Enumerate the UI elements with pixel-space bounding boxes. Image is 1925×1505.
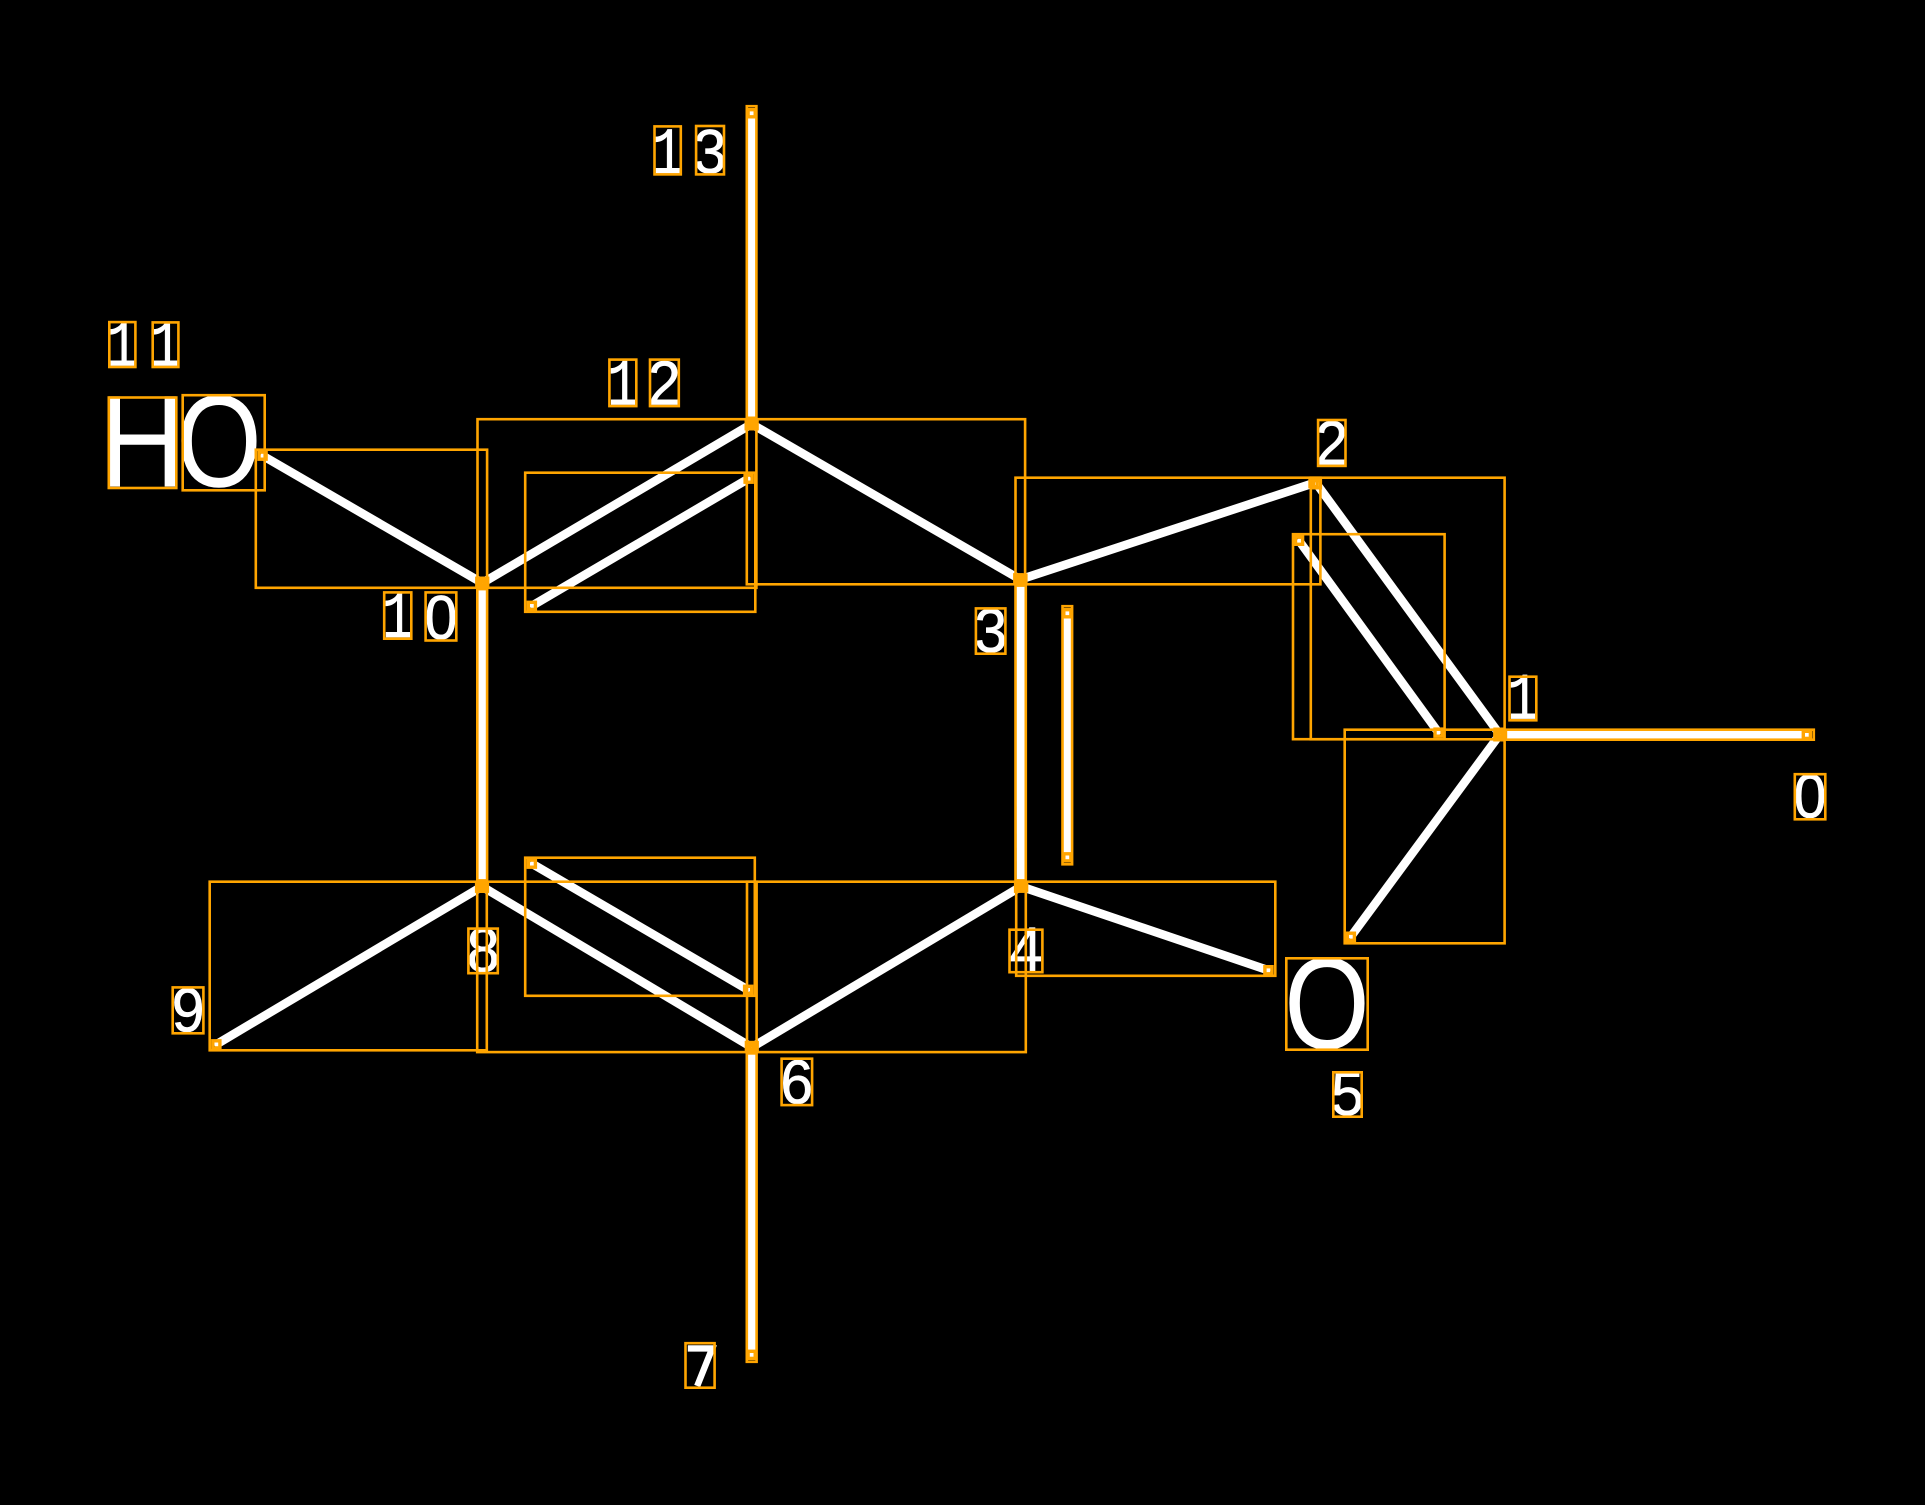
svg-text:O: O <box>1284 929 1370 1076</box>
atom index digit 7 <box>688 1348 712 1386</box>
digit 2 bbox <box>650 360 679 407</box>
digit 0 bbox <box>1795 774 1826 819</box>
bond 10-8 endpoint markers <box>479 582 486 589</box>
bond 3-2 bbox <box>1016 478 1321 585</box>
digit 3 bbox <box>696 126 724 174</box>
digit 1 bbox <box>655 126 681 174</box>
bond 10-11 <box>261 455 483 584</box>
bond 3-2 endpoint markers <box>1019 575 1026 582</box>
atom 11 H char bbox <box>109 398 177 489</box>
bond 12-3 bbox <box>747 419 1025 584</box>
bond 13-12 endpoint markers <box>748 110 755 117</box>
bond 1-5 endpoint markers <box>1495 733 1502 740</box>
bond 2-1 endpoint markers <box>1313 481 1320 488</box>
bond 1-0 endpoint markers <box>1498 731 1505 738</box>
double bond 2-1 inner line <box>1298 539 1440 734</box>
double bond 12-10 inner line bbox <box>525 473 755 612</box>
bond 10-11 bbox <box>256 450 487 588</box>
digit 1 bbox <box>384 592 411 638</box>
bond 10-11 endpoint markers <box>477 578 484 585</box>
svg-text:H: H <box>99 368 186 515</box>
bond 3-2 <box>1020 483 1315 580</box>
digit 2 bbox <box>1318 420 1345 466</box>
bond 6-7 bbox <box>747 1043 757 1362</box>
bond 8-9 bbox <box>210 882 487 1051</box>
bond 6-7 <box>747 1047 756 1357</box>
bond 1-0 <box>1500 730 1809 739</box>
svg-text:1: 1 <box>1507 663 1538 738</box>
bond 10-8 <box>478 583 487 887</box>
digit 1 bbox <box>609 360 636 407</box>
bond 3-4 bbox <box>1016 575 1026 892</box>
atom 11 O char bbox <box>183 395 265 490</box>
bond 4-6 <box>752 887 1021 1048</box>
bond 10-8 bbox <box>477 578 487 891</box>
bond 1-5 <box>1350 735 1500 939</box>
svg-text:1: 1 <box>652 117 683 192</box>
bond 2-1 bbox <box>1311 478 1505 740</box>
digit 8 bbox <box>468 929 497 974</box>
bond 12-3 endpoint markers <box>750 422 757 429</box>
double bond 6-8 inner line endpoint markers <box>528 860 535 867</box>
double bond 3-4 inner line endpoint markers <box>1064 610 1071 617</box>
bond 3-4 <box>1016 580 1025 887</box>
bond 12-10 <box>482 424 751 583</box>
digit 1 bbox <box>109 322 135 367</box>
double bond 6-8 inner line bbox <box>525 858 755 996</box>
double bond 2-1 inner line bbox <box>1293 534 1445 739</box>
bond 4-5 <box>1021 887 1271 972</box>
bond 6-8 <box>482 887 752 1048</box>
digit 0 bbox <box>426 592 457 640</box>
bond 2-1 <box>1316 483 1500 735</box>
digit 4 bbox <box>1010 930 1043 973</box>
bond 3-4 endpoint markers <box>1017 578 1024 585</box>
bond 4-5 endpoint markers <box>1020 884 1027 891</box>
digit 6 bbox <box>782 1059 813 1105</box>
bond 13-12 <box>747 111 756 424</box>
svg-text:O: O <box>176 367 262 514</box>
bond 12-3 <box>752 424 1021 580</box>
bond 4-5 bbox <box>1016 882 1275 976</box>
atom 5 O char bbox <box>1286 958 1367 1049</box>
digit 1 bbox <box>153 322 179 367</box>
digit 1 bbox <box>1510 677 1537 721</box>
double bond 3-4 inner line bbox <box>1063 606 1073 864</box>
bond 8-9 <box>215 887 483 1046</box>
bond 8-9 endpoint markers <box>477 884 484 891</box>
bond 1-0 bbox <box>1495 730 1814 740</box>
bond 6-8 endpoint markers <box>746 1043 753 1050</box>
bond 13-12 bbox <box>747 106 757 429</box>
bond 4-6 endpoint markers <box>1016 884 1023 891</box>
double bond 6-8 inner line <box>530 863 750 992</box>
bond 12-10 bbox <box>478 419 757 588</box>
bond 6-8 bbox <box>477 882 756 1052</box>
digit 9 bbox <box>173 987 204 1033</box>
double bond 3-4 inner line <box>1063 611 1072 860</box>
bond 1-5 bbox <box>1345 730 1505 944</box>
bond 6-7 endpoint markers <box>748 1046 755 1053</box>
bond 4-6 bbox <box>747 882 1026 1052</box>
digit 3 bbox <box>976 608 1006 653</box>
double bond 2-1 inner line endpoint markers <box>1296 537 1303 544</box>
digit 7 bbox <box>686 1343 715 1388</box>
digit 5 bbox <box>1333 1072 1361 1116</box>
double bond 12-10 inner line <box>530 478 751 608</box>
double bond 12-10 inner line endpoint markers <box>745 475 752 482</box>
bond 12-10 endpoint markers <box>746 422 753 429</box>
